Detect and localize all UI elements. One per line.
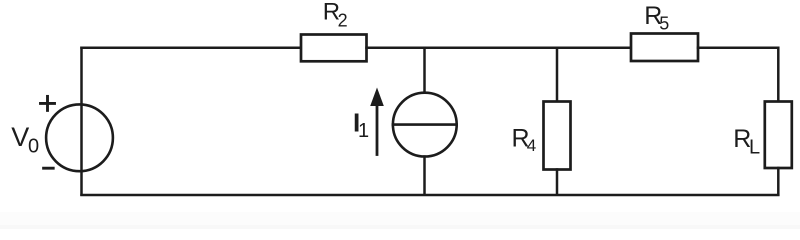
plus polarity mark [41,96,55,110]
svg-text:V: V [11,122,29,152]
svg-text:0: 0 [28,136,39,158]
wire: top segment R2 to R5 [367,47,632,50]
wire: I1 branch lower [423,157,426,195]
wire: left branch vertical (top wire to bottom wire through V0) [80,48,83,195]
current direction arrow [370,88,384,155]
svg-text:L: L [749,137,760,159]
label R2 [323,0,348,31]
current source I1 [393,93,457,157]
wire: top segment R5 to right corner and down to RL [698,48,778,102]
svg-text:2: 2 [338,11,348,31]
wire: R4 branch lower [556,170,559,195]
voltage source V0 [46,104,113,171]
resistor R4 [544,102,571,170]
resistor R2 [301,35,367,62]
wire: top segment V0 to R2 [82,47,302,50]
wire: I1 branch upper [423,48,426,93]
svg-text:5: 5 [659,14,669,34]
wire: bottom return [82,194,779,197]
label RL [733,125,760,159]
label V0 [11,122,39,157]
label R4 [512,124,537,155]
minus polarity mark [44,167,54,170]
label I1 [353,108,369,143]
wire: R4 branch upper [556,48,559,102]
resistor RL [765,102,792,169]
wire: RL branch lower [777,168,780,195]
label R5 [644,2,669,34]
resistor R5 [631,34,698,62]
svg-text:1: 1 [358,120,369,142]
svg-text:4: 4 [527,136,536,155]
